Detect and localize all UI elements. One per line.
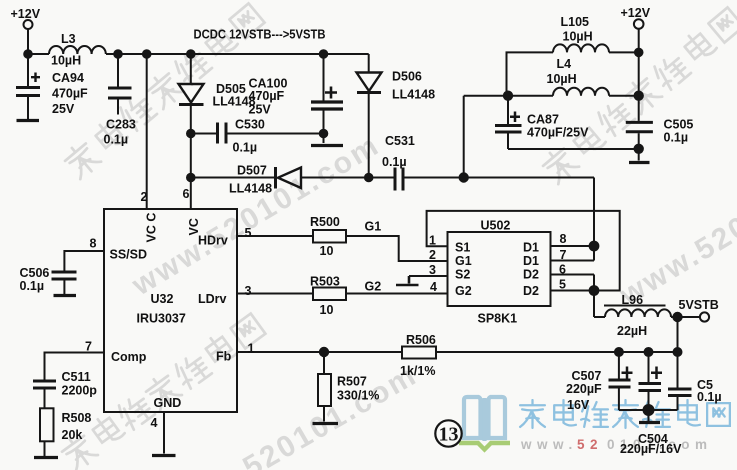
svg-text:5: 5 bbox=[559, 278, 566, 292]
ground C505 bbox=[629, 161, 650, 164]
svg-text:L4: L4 bbox=[557, 57, 572, 71]
svg-text:CA87: CA87 bbox=[527, 113, 559, 127]
svg-text:25V: 25V bbox=[249, 103, 272, 117]
svg-text:G2: G2 bbox=[455, 284, 472, 298]
capacitor C507 bbox=[609, 352, 633, 410]
capacitor C283 bbox=[108, 54, 132, 115]
ground R508 bbox=[34, 456, 58, 459]
svg-text:7: 7 bbox=[85, 340, 92, 354]
wire S2 pin3 bbox=[409, 275, 448, 277]
svg-text:L3: L3 bbox=[61, 32, 76, 46]
svg-text:+12V: +12V bbox=[11, 7, 41, 21]
capacitor C531 bbox=[395, 168, 594, 191]
node cap bottom bbox=[644, 405, 654, 415]
wire bbox=[368, 54, 370, 73]
svg-text:7: 7 bbox=[560, 248, 567, 262]
wire Comp pin7 bbox=[45, 353, 105, 380]
wire G2 bbox=[346, 293, 448, 295]
capacitor C506 bbox=[52, 272, 77, 294]
wire D2 tie bbox=[593, 275, 595, 318]
svg-text:4: 4 bbox=[151, 416, 158, 430]
svg-text:SS/SD: SS/SD bbox=[110, 248, 148, 262]
wire GND pin4 bbox=[163, 412, 165, 454]
node 12V rail left bbox=[24, 50, 32, 58]
page number 13 bbox=[435, 420, 461, 446]
node C505 bottom bbox=[635, 145, 643, 153]
svg-text:R500: R500 bbox=[310, 215, 340, 229]
svg-text:D2: D2 bbox=[523, 284, 539, 298]
wire D1 tie bbox=[593, 178, 595, 261]
svg-text:8: 8 bbox=[560, 232, 567, 246]
svg-text:6: 6 bbox=[559, 263, 566, 277]
inductor L105 bbox=[553, 44, 609, 52]
wire cap bottom row bbox=[619, 409, 678, 411]
svg-text:LL4148: LL4148 bbox=[392, 88, 435, 102]
diode D507 bbox=[276, 167, 302, 189]
node VC junction bbox=[187, 174, 195, 182]
wire CA87 bottom row bbox=[508, 148, 639, 150]
capacitor C530 bbox=[191, 123, 324, 144]
svg-text:470µF: 470µF bbox=[249, 89, 285, 103]
capacitor C511 bbox=[33, 381, 56, 408]
resistor R508 bbox=[40, 408, 54, 456]
diode D505 bbox=[179, 84, 204, 105]
svg-text:3: 3 bbox=[429, 263, 436, 277]
wire 12V rail bbox=[106, 53, 369, 55]
ground CA94 bbox=[17, 119, 40, 122]
resistor R506 bbox=[402, 347, 436, 359]
svg-text:VC C: VC C bbox=[145, 213, 159, 243]
svg-text:C507: C507 bbox=[572, 369, 602, 383]
wire D2 pin5 bbox=[551, 290, 595, 292]
svg-text:CA94: CA94 bbox=[52, 71, 84, 85]
node D2 bbox=[590, 286, 599, 295]
wire bbox=[609, 95, 639, 97]
node 5VSTB bbox=[673, 313, 681, 321]
capacitor C505 bbox=[626, 96, 653, 161]
svg-text:8: 8 bbox=[90, 237, 97, 251]
svg-text:D2: D2 bbox=[523, 268, 539, 282]
wire bbox=[190, 106, 192, 134]
node D505 rail bbox=[187, 50, 195, 58]
svg-text:LL4148: LL4148 bbox=[229, 182, 272, 196]
svg-text:1: 1 bbox=[429, 234, 436, 248]
node CA100 rail bbox=[320, 50, 328, 58]
svg-text:U32: U32 bbox=[151, 292, 174, 306]
wire bbox=[463, 96, 465, 178]
svg-text:2: 2 bbox=[141, 190, 148, 204]
node C5 top bbox=[674, 348, 682, 356]
svg-text:S2: S2 bbox=[455, 268, 470, 282]
wire Fb pin1 bbox=[237, 351, 402, 353]
svg-text:0.1µ: 0.1µ bbox=[104, 133, 129, 147]
wire VC row bbox=[191, 177, 274, 179]
wire pin6 bbox=[190, 178, 192, 210]
node C530 left bbox=[187, 130, 195, 138]
wire bbox=[301, 177, 394, 179]
+12V terminal right bbox=[634, 19, 644, 29]
wire bbox=[638, 29, 640, 96]
svg-text:LDrv: LDrv bbox=[198, 292, 227, 306]
wire Fb to output bbox=[436, 351, 678, 353]
svg-text:SP8K1: SP8K1 bbox=[478, 312, 518, 326]
inductor L3 bbox=[49, 46, 106, 54]
svg-text:www.520101.com: www.520101.com bbox=[614, 138, 737, 312]
svg-text:C531: C531 bbox=[385, 134, 415, 148]
svg-text:IRU3037: IRU3037 bbox=[137, 312, 186, 326]
ground U32 bbox=[152, 454, 176, 457]
svg-text:0.1µ: 0.1µ bbox=[697, 390, 722, 404]
svg-text:0.1µ: 0.1µ bbox=[382, 155, 407, 169]
svg-text:G1: G1 bbox=[455, 254, 472, 268]
svg-text:DCDC 12VSTB--->5VSTB: DCDC 12VSTB--->5VSTB bbox=[194, 28, 326, 42]
capacitor CA94 bbox=[16, 54, 40, 119]
svg-text:D506: D506 bbox=[392, 70, 422, 84]
svg-text:R506: R506 bbox=[406, 333, 436, 347]
wire D1 pin8 bbox=[551, 245, 595, 247]
L96 label bar bbox=[604, 305, 666, 307]
wire bbox=[27, 29, 29, 54]
wire pin2 bbox=[146, 54, 148, 209]
wire bbox=[671, 316, 700, 318]
svg-text:1: 1 bbox=[248, 342, 255, 356]
node D1 bbox=[590, 242, 599, 251]
resistor R503 bbox=[313, 288, 346, 301]
resistor R500 bbox=[313, 230, 346, 243]
svg-text:10: 10 bbox=[320, 303, 334, 317]
svg-text:C506: C506 bbox=[20, 266, 50, 280]
svg-text:L105: L105 bbox=[561, 15, 590, 29]
svg-text:R508: R508 bbox=[62, 411, 92, 425]
capacitor C5 bbox=[668, 352, 692, 410]
wire bbox=[594, 316, 605, 318]
node CA87 top bbox=[504, 92, 512, 100]
svg-text:C511: C511 bbox=[62, 370, 91, 384]
svg-text:U502: U502 bbox=[481, 219, 511, 233]
wire L4 row bbox=[464, 95, 553, 97]
capacitor CA100 bbox=[311, 54, 343, 143]
svg-text:220µF: 220µF bbox=[566, 382, 602, 396]
svg-text:Fb: Fb bbox=[216, 350, 232, 364]
transistor U502 SP8K1 body bbox=[448, 232, 551, 306]
svg-text:22µH: 22µH bbox=[617, 324, 647, 338]
svg-text:3: 3 bbox=[245, 284, 252, 298]
svg-text:330/1%: 330/1% bbox=[337, 389, 379, 403]
ground S2 bbox=[396, 276, 419, 285]
node C507 top bbox=[615, 348, 623, 356]
inductor L4 bbox=[553, 88, 609, 96]
svg-text:0.1µ: 0.1µ bbox=[233, 141, 258, 155]
svg-text:220µF/16V: 220µF/16V bbox=[620, 442, 682, 456]
wire LDrv pin3 bbox=[237, 293, 313, 295]
capacitor CA87 bbox=[495, 96, 522, 149]
svg-text:G1: G1 bbox=[365, 220, 382, 234]
svg-text:52: 52 bbox=[577, 437, 603, 452]
wire bbox=[190, 54, 192, 84]
svg-text:C505: C505 bbox=[664, 118, 694, 132]
wire bbox=[190, 134, 192, 178]
node L105 right bbox=[635, 49, 643, 57]
svg-text:www.520101.com: www.520101.com bbox=[161, 358, 423, 470]
svg-text:470µF/25V: 470µF/25V bbox=[527, 126, 589, 140]
wire bbox=[368, 94, 370, 178]
node C531 right bbox=[460, 173, 468, 181]
svg-text:16V: 16V bbox=[567, 398, 590, 412]
svg-text:13: 13 bbox=[439, 424, 459, 446]
resistor R507 bbox=[318, 352, 331, 422]
svg-text:10: 10 bbox=[320, 244, 334, 258]
svg-text:L96: L96 bbox=[622, 293, 644, 307]
svg-text:0.1µ: 0.1µ bbox=[20, 279, 45, 293]
svg-text:www.: www. bbox=[520, 437, 578, 452]
svg-text:GND: GND bbox=[154, 396, 182, 410]
5VSTB terminal bbox=[700, 312, 709, 321]
wire bbox=[28, 53, 49, 55]
node R507 bbox=[320, 348, 328, 356]
diode D506 bbox=[357, 73, 382, 93]
svg-text:1k/1%: 1k/1% bbox=[400, 364, 435, 378]
wire D2 pin6 bbox=[551, 274, 595, 276]
svg-text:10µH: 10µH bbox=[563, 30, 593, 44]
svg-text:+12V: +12V bbox=[621, 6, 651, 20]
svg-text:2: 2 bbox=[429, 248, 436, 262]
ground C506 bbox=[54, 294, 77, 297]
wire bbox=[609, 51, 639, 53]
ground C504 bbox=[639, 421, 660, 424]
wire HDrv pin5 bbox=[237, 235, 313, 237]
wire S1 loop bbox=[427, 211, 620, 291]
wire SS/SD pin8 bbox=[64, 251, 104, 271]
svg-text:C530: C530 bbox=[235, 118, 265, 132]
node L4 right bbox=[635, 92, 643, 100]
svg-text:470µF: 470µF bbox=[52, 87, 88, 101]
wire G1 bbox=[346, 236, 448, 261]
node C283 bbox=[114, 50, 122, 58]
+12V terminal left bbox=[24, 20, 33, 29]
node pin2 rail bbox=[143, 50, 151, 58]
svg-text:6: 6 bbox=[183, 187, 190, 201]
node C504 top bbox=[645, 348, 653, 356]
svg-text:R503: R503 bbox=[310, 275, 340, 289]
svg-text:5: 5 bbox=[245, 226, 252, 240]
node D506 bottom bbox=[365, 174, 373, 182]
svg-text:D507: D507 bbox=[237, 164, 267, 178]
svg-text:Comp: Comp bbox=[111, 350, 147, 364]
wire bbox=[648, 410, 650, 421]
inductor L96 bbox=[605, 309, 671, 317]
svg-text:G2: G2 bbox=[365, 280, 382, 294]
wire D1 pin7 bbox=[551, 260, 595, 262]
svg-text:2200p: 2200p bbox=[62, 384, 98, 398]
svg-text:S1: S1 bbox=[455, 241, 470, 255]
svg-text:10µH: 10µH bbox=[547, 72, 577, 86]
node C530 right bbox=[320, 130, 328, 138]
svg-text:4: 4 bbox=[430, 280, 437, 294]
svg-text:25V: 25V bbox=[52, 102, 75, 116]
capacitor C504 bbox=[639, 352, 663, 410]
svg-text:R507: R507 bbox=[337, 375, 367, 389]
svg-text:5VSTB: 5VSTB bbox=[679, 298, 719, 312]
svg-text:HDrv: HDrv bbox=[198, 234, 228, 248]
svg-text:D1: D1 bbox=[523, 254, 539, 268]
ground R507 bbox=[313, 422, 339, 425]
ground CA100 bbox=[311, 144, 343, 147]
wire L105 left leg bbox=[507, 52, 554, 95]
svg-text:0.1µ: 0.1µ bbox=[664, 131, 689, 145]
svg-text:D1: D1 bbox=[523, 241, 539, 255]
svg-text:10µH: 10µH bbox=[51, 54, 81, 68]
wire bbox=[677, 317, 679, 352]
svg-text:20k: 20k bbox=[62, 428, 83, 442]
op-amp U32 IRU3037 body bbox=[104, 209, 237, 412]
svg-text:C283: C283 bbox=[106, 118, 136, 132]
